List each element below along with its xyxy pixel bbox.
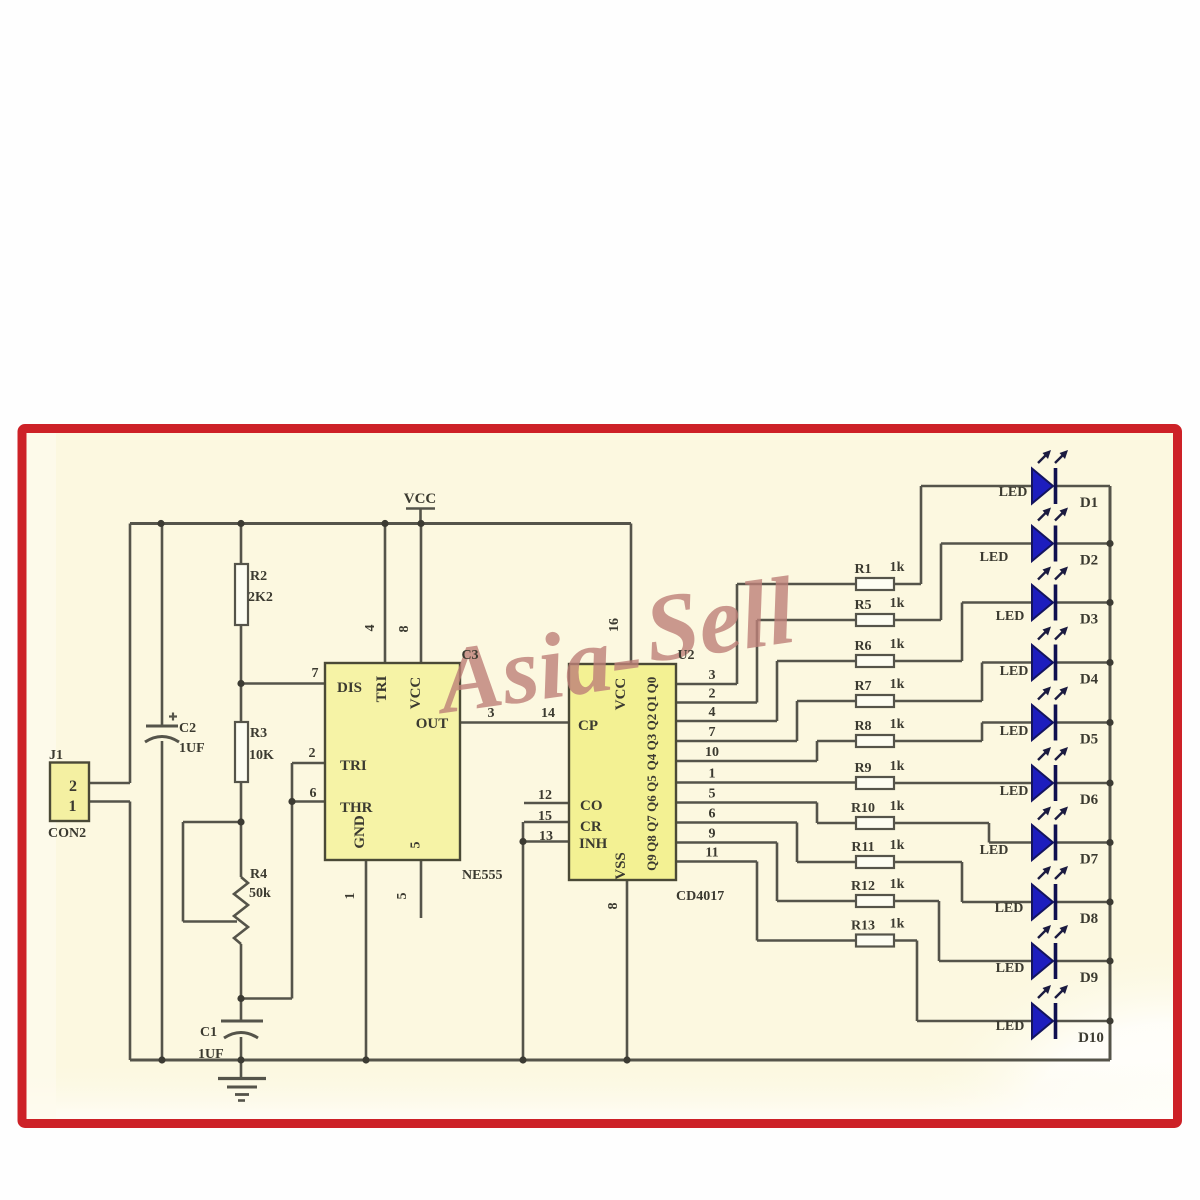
svg-text:5: 5 xyxy=(395,893,410,900)
svg-text:6: 6 xyxy=(310,786,317,801)
svg-text:LED: LED xyxy=(996,609,1025,624)
svg-text:Q5: Q5 xyxy=(644,775,659,792)
svg-text:5: 5 xyxy=(409,842,424,849)
svg-text:INH: INH xyxy=(579,836,608,852)
svg-text:R2: R2 xyxy=(250,569,267,584)
svg-text:R12: R12 xyxy=(851,879,875,894)
svg-text:16: 16 xyxy=(607,618,622,632)
svg-text:6: 6 xyxy=(709,807,716,822)
svg-text:5: 5 xyxy=(709,787,716,802)
svg-text:DIS: DIS xyxy=(337,680,362,696)
svg-text:1k: 1k xyxy=(890,560,905,575)
svg-text:R11: R11 xyxy=(851,840,874,855)
svg-text:50k: 50k xyxy=(249,886,271,901)
svg-text:C2: C2 xyxy=(179,721,196,736)
svg-text:7: 7 xyxy=(312,666,319,681)
svg-text:R6: R6 xyxy=(854,639,871,654)
svg-text:C1: C1 xyxy=(200,1025,217,1040)
svg-text:D7: D7 xyxy=(1080,852,1099,868)
svg-text:1: 1 xyxy=(343,893,358,900)
svg-text:Q0: Q0 xyxy=(644,677,659,694)
svg-text:GND: GND xyxy=(352,815,368,849)
svg-text:Q9: Q9 xyxy=(644,854,659,871)
svg-text:D1: D1 xyxy=(1080,495,1098,511)
svg-text:R5: R5 xyxy=(854,598,871,613)
svg-text:1k: 1k xyxy=(890,717,905,732)
svg-text:CP: CP xyxy=(578,718,598,734)
svg-text:LED: LED xyxy=(980,843,1009,858)
svg-text:R4: R4 xyxy=(250,867,267,882)
svg-text:D2: D2 xyxy=(1080,553,1098,569)
svg-text:1k: 1k xyxy=(890,877,905,892)
svg-text:LED: LED xyxy=(1000,784,1029,799)
svg-text:1k: 1k xyxy=(890,596,905,611)
svg-text:J1: J1 xyxy=(49,748,63,763)
svg-text:VCC: VCC xyxy=(404,491,437,507)
svg-text:Q8: Q8 xyxy=(644,835,659,852)
svg-text:3: 3 xyxy=(709,668,716,683)
svg-text:OUT: OUT xyxy=(416,716,449,732)
svg-text:Q1: Q1 xyxy=(644,695,659,712)
svg-text:8: 8 xyxy=(606,903,621,910)
svg-text:3: 3 xyxy=(488,706,495,721)
svg-text:1UF: 1UF xyxy=(198,1047,224,1062)
svg-text:R10: R10 xyxy=(851,801,875,816)
svg-text:VCC: VCC xyxy=(408,677,424,710)
svg-text:10: 10 xyxy=(705,745,719,760)
svg-text:CO: CO xyxy=(580,798,603,814)
svg-text:2: 2 xyxy=(309,746,316,761)
svg-text:LED: LED xyxy=(995,901,1024,916)
svg-text:U2: U2 xyxy=(677,648,694,663)
svg-text:TRI: TRI xyxy=(340,758,367,774)
svg-text:Sell: Sell xyxy=(638,556,801,683)
svg-text:TRI: TRI xyxy=(374,676,390,703)
svg-text:THR: THR xyxy=(340,800,373,816)
svg-text:13: 13 xyxy=(539,829,553,844)
svg-text:C3: C3 xyxy=(461,648,478,663)
svg-text:LED: LED xyxy=(1000,664,1029,679)
svg-text:CD4017: CD4017 xyxy=(676,889,724,904)
svg-text:1k: 1k xyxy=(890,838,905,853)
svg-text:D3: D3 xyxy=(1080,612,1098,628)
svg-text:D9: D9 xyxy=(1080,970,1098,986)
svg-text:R13: R13 xyxy=(851,919,875,934)
svg-text:LED: LED xyxy=(1000,724,1029,739)
svg-text:CR: CR xyxy=(580,819,602,835)
svg-text:LED: LED xyxy=(996,1019,1025,1034)
svg-text:1k: 1k xyxy=(890,799,905,814)
svg-text:1: 1 xyxy=(709,767,716,782)
svg-text:D5: D5 xyxy=(1080,732,1098,748)
svg-text:15: 15 xyxy=(538,809,552,824)
svg-text:1k: 1k xyxy=(890,759,905,774)
svg-text:LED: LED xyxy=(980,550,1009,565)
svg-text:LED: LED xyxy=(999,485,1028,500)
svg-text:12: 12 xyxy=(538,788,552,803)
svg-text:R8: R8 xyxy=(854,719,871,734)
svg-text:Q3: Q3 xyxy=(644,733,659,750)
svg-text:8: 8 xyxy=(397,626,412,633)
svg-text:R7: R7 xyxy=(854,679,871,694)
svg-text:11: 11 xyxy=(705,846,718,861)
svg-text:1k: 1k xyxy=(890,917,905,932)
svg-text:CON2: CON2 xyxy=(48,826,86,841)
svg-text:Q2: Q2 xyxy=(644,714,659,731)
svg-text:D4: D4 xyxy=(1080,672,1099,688)
svg-text:LED: LED xyxy=(996,961,1025,976)
svg-text:R1: R1 xyxy=(854,562,871,577)
svg-text:D6: D6 xyxy=(1080,792,1099,808)
svg-text:14: 14 xyxy=(541,706,555,721)
svg-text:D10: D10 xyxy=(1078,1030,1104,1046)
svg-text:1UF: 1UF xyxy=(179,741,205,756)
svg-text:1k: 1k xyxy=(890,677,905,692)
svg-text:Q6: Q6 xyxy=(644,795,659,812)
svg-text:Q4: Q4 xyxy=(644,753,659,770)
svg-text:4: 4 xyxy=(709,705,716,720)
svg-text:VCC: VCC xyxy=(613,678,629,711)
svg-text:2K2: 2K2 xyxy=(248,590,273,605)
svg-text:Q7: Q7 xyxy=(644,815,659,832)
svg-text:R9: R9 xyxy=(854,761,871,776)
svg-text:VSS: VSS xyxy=(613,852,629,880)
svg-text:NE555: NE555 xyxy=(462,868,502,883)
svg-text:7: 7 xyxy=(709,725,716,740)
svg-text:1: 1 xyxy=(69,798,77,815)
svg-text:2: 2 xyxy=(69,778,77,795)
svg-text:4: 4 xyxy=(363,625,378,632)
svg-text:R3: R3 xyxy=(250,726,267,741)
svg-text:D8: D8 xyxy=(1080,911,1098,927)
svg-text:2: 2 xyxy=(709,687,716,702)
svg-text:1k: 1k xyxy=(890,637,905,652)
svg-text:9: 9 xyxy=(709,827,716,842)
svg-text:10K: 10K xyxy=(249,748,274,763)
